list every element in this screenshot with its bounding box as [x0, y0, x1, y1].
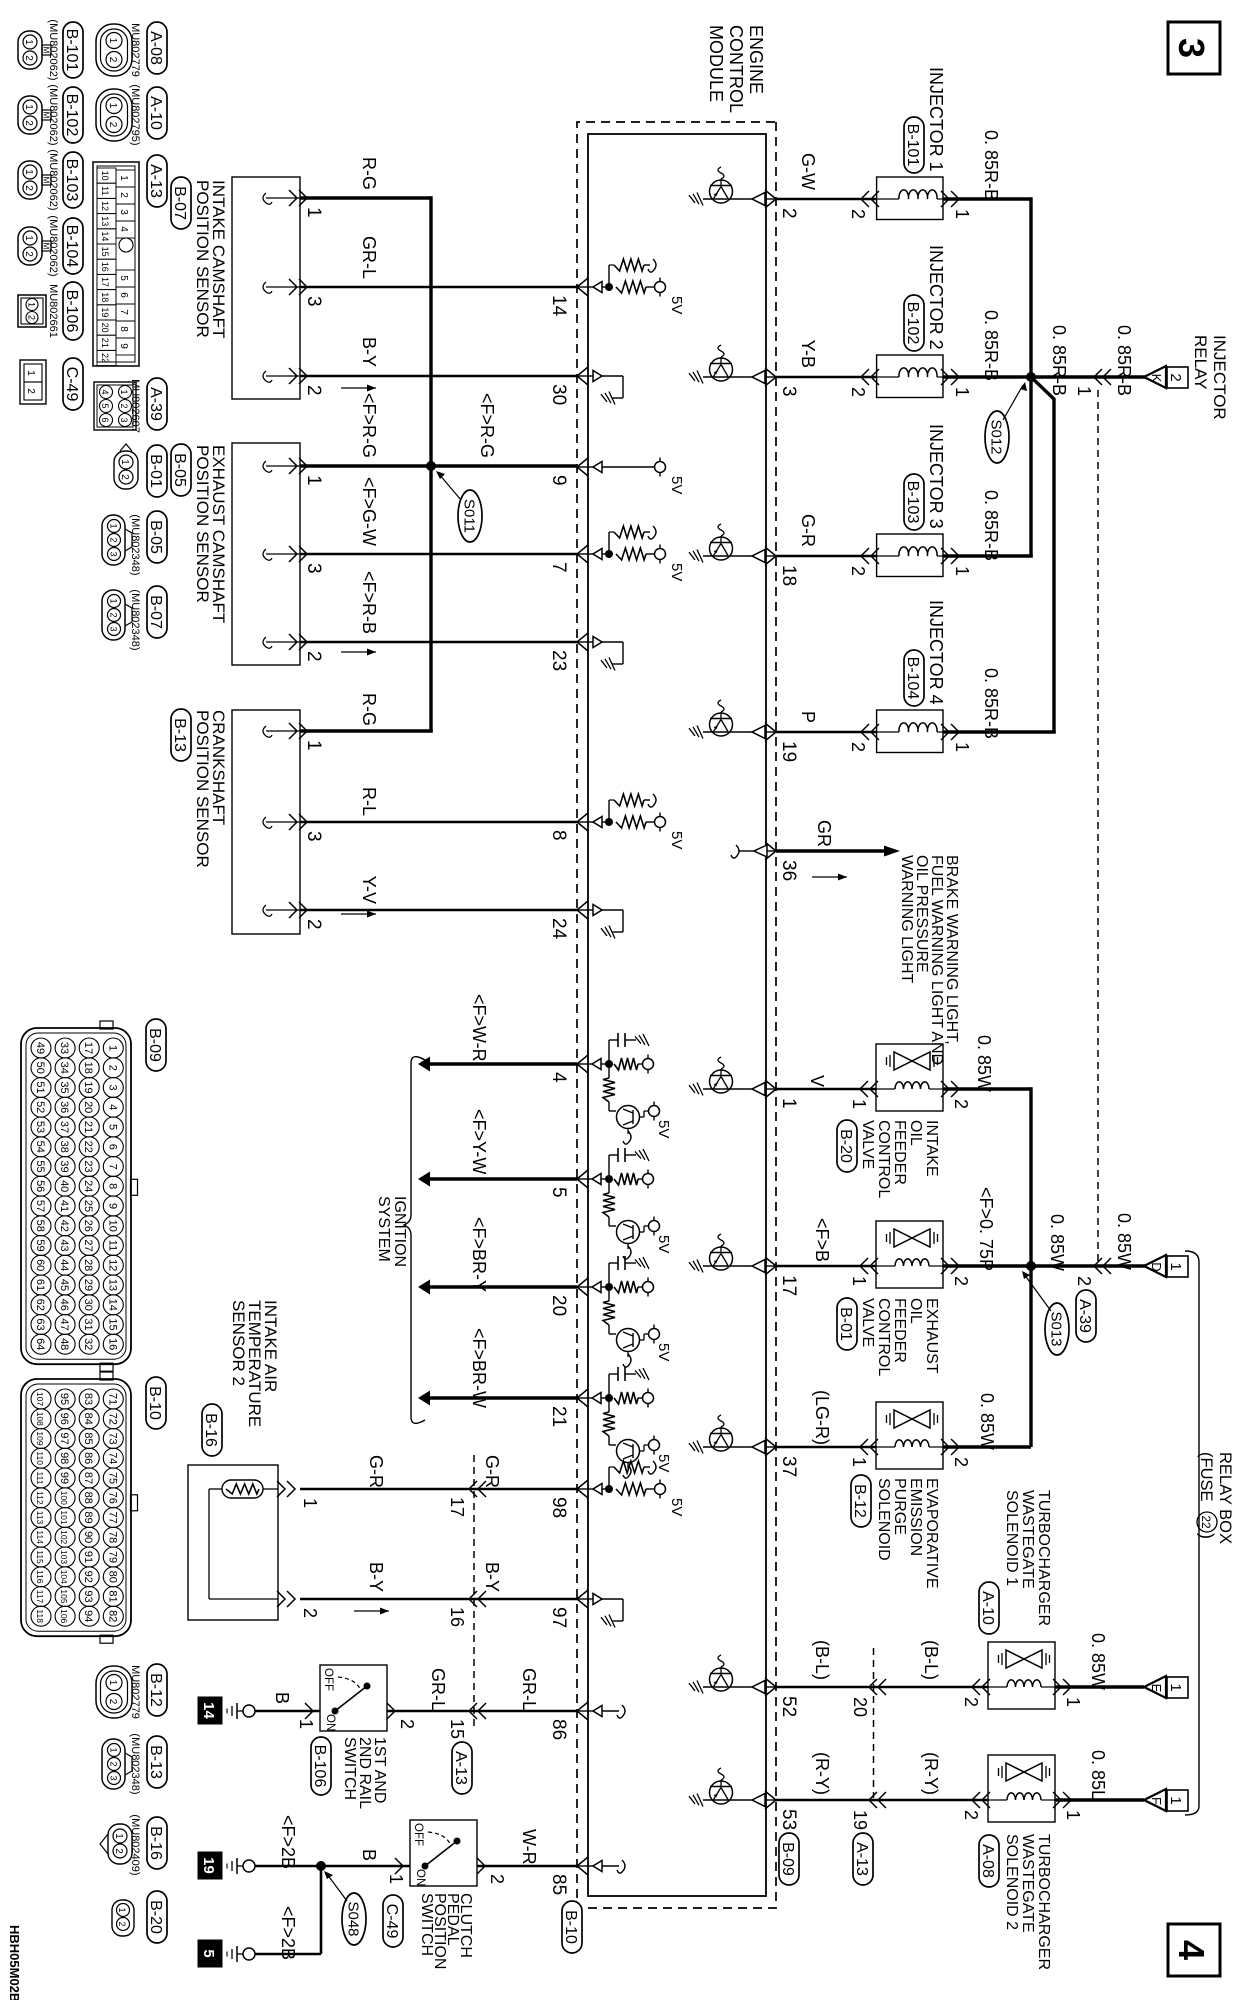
connector text (MU802062) [47, 84, 59, 145]
connector pill B-106 [63, 282, 83, 340]
svg-text:B-01: B-01 [837, 1307, 854, 1341]
svg-text:25: 25 [82, 1200, 94, 1212]
wire 0.85W purge to bus [943, 1445, 1031, 1448]
wire GR-L rail switch to ECM 86 [387, 1710, 577, 1713]
svg-text:OFF: OFF [322, 1668, 334, 1691]
svg-text:R-G: R-G [359, 693, 379, 726]
svg-text:2: 2 [25, 388, 36, 394]
connector text MU802779 [129, 23, 141, 77]
svg-text:S048: S048 [345, 1901, 362, 1936]
svg-text:59: 59 [34, 1239, 46, 1251]
svg-text:1: 1 [109, 1747, 119, 1752]
svg-text:C-49: C-49 [63, 367, 80, 402]
svg-text:3: 3 [109, 626, 119, 631]
clutch switch label [418, 1893, 474, 1969]
svg-text:76: 76 [106, 1492, 118, 1504]
wire label Y-V [359, 876, 379, 904]
svg-text:84: 84 [82, 1413, 94, 1425]
svg-text:63: 63 [34, 1318, 46, 1330]
svg-text:0. 85W: 0. 85W [1114, 1213, 1134, 1270]
injector coil B-101 [877, 190, 943, 199]
svg-text:TURBOCHARGER: TURBOCHARGER [1035, 1834, 1052, 1970]
exhaust camshaft position sensor box B-05 [232, 443, 307, 665]
svg-text:8: 8 [106, 1183, 118, 1189]
connector text (MU802062) [47, 215, 59, 276]
svg-text:<F>R-G: <F>R-G [359, 393, 379, 458]
svg-text:1: 1 [23, 104, 34, 110]
svg-text:61: 61 [34, 1279, 46, 1291]
wire label GR [814, 820, 834, 847]
svg-text:75: 75 [106, 1472, 118, 1484]
svg-text:B-10: B-10 [562, 1910, 579, 1944]
svg-text:73: 73 [106, 1432, 118, 1444]
ECM pin 24 (bottom edge) [548, 901, 588, 940]
A-13 harness dashed line (sensor rows) [473, 1455, 475, 1730]
connector text MU802661 [47, 284, 59, 338]
svg-text:E: E [1149, 1684, 1164, 1693]
svg-text:58: 58 [34, 1220, 46, 1232]
svg-text:TURBOCHARGER: TURBOCHARGER [1035, 1490, 1052, 1626]
svg-text:B-07: B-07 [171, 186, 188, 220]
connector pill B-01 [147, 445, 167, 497]
svg-text:2: 2 [118, 192, 129, 198]
svg-text:1: 1 [27, 302, 37, 307]
svg-text:VALVE: VALVE [859, 1298, 876, 1347]
svg-text:INJECTOR 3: INJECTOR 3 [926, 424, 946, 529]
ECM pin 2 (top edge) [765, 190, 799, 219]
wire labels (B-L) [812, 1640, 941, 1680]
svg-text:37: 37 [778, 1456, 799, 1477]
connector label B-20 pill [837, 1120, 857, 1172]
wire <F>R-G exhaust cam pin1 to ECM pin 9 [300, 464, 577, 467]
svg-text:53: 53 [778, 1809, 799, 1830]
svg-text:0. 85R-B: 0. 85R-B [1114, 325, 1134, 396]
svg-text:2: 2 [117, 1921, 127, 1926]
svg-text:B-01: B-01 [147, 454, 164, 488]
svg-text:22: 22 [1199, 1515, 1213, 1529]
splice junction S013 [1026, 1261, 1036, 1271]
svg-text:112: 112 [35, 1491, 45, 1505]
wastegate1 crossing chevrons [869, 1679, 886, 1695]
wire B-Y intake pin2 to ECM 30 [300, 375, 577, 378]
svg-text:117: 117 [35, 1590, 45, 1604]
connector label B-01 pill [837, 1298, 857, 1350]
svg-text:113: 113 [35, 1511, 45, 1525]
connector label B-09 pill (pin53) [779, 1833, 799, 1885]
wire label <F>B [812, 1218, 832, 1262]
svg-text:B-16: B-16 [147, 1826, 164, 1860]
svg-text:77: 77 [106, 1511, 118, 1523]
svg-text:83: 83 [82, 1393, 94, 1405]
connector pill B-102 [63, 87, 83, 143]
svg-text:A-10: A-10 [979, 1591, 996, 1625]
svg-text:B-106: B-106 [63, 290, 80, 333]
svg-text:1: 1 [1063, 1810, 1083, 1820]
sensor pin number 3 [303, 831, 324, 842]
svg-text:38: 38 [58, 1141, 70, 1153]
svg-text:2: 2 [961, 1810, 981, 1820]
svg-text:0. 85W: 0. 85W [1047, 1214, 1067, 1271]
connector text (MU802062) [47, 19, 59, 80]
ground symbol for spare ground [227, 1946, 255, 1962]
svg-text:19: 19 [200, 1857, 217, 1874]
relay feed triangle D [1144, 1255, 1166, 1277]
svg-text:A-39: A-39 [147, 387, 164, 421]
svg-text:50: 50 [34, 1062, 46, 1074]
connector label B-101 pill [904, 117, 924, 173]
svg-text:A-13: A-13 [147, 164, 164, 198]
svg-text:5V: 5V [655, 1454, 672, 1472]
svg-text:23: 23 [82, 1160, 94, 1172]
svg-text:1: 1 [1167, 1796, 1184, 1804]
ECM pin 36 (top edge) [765, 842, 799, 881]
svg-text:SWITCH: SWITCH [418, 1893, 435, 1956]
intake oil feeder valve label [859, 1120, 940, 1198]
injector/solenoid driver transistor inside ECM at pin 37 [689, 1415, 776, 1454]
wire Y-V crank pin2 to ECM 24 [300, 909, 577, 912]
svg-text:2: 2 [848, 387, 868, 397]
svg-text:16: 16 [100, 262, 110, 272]
svg-text:W-R: W-R [519, 1829, 539, 1865]
svg-text:<F>BR-Y: <F>BR-Y [469, 1217, 489, 1292]
svg-text:52: 52 [34, 1101, 46, 1113]
svg-text:4: 4 [548, 1072, 569, 1083]
svg-text:B-13: B-13 [171, 718, 188, 752]
wire label B [359, 1849, 379, 1861]
svg-text:86: 86 [548, 1719, 569, 1740]
intake camshaft position sensor label [193, 180, 228, 338]
wire label G-R [366, 1455, 386, 1488]
svg-text:B-10: B-10 [146, 1386, 163, 1420]
exhaust oil feeder control valve box B-01 [860, 1221, 959, 1288]
svg-text:POSITION SENSOR: POSITION SENSOR [193, 710, 212, 868]
svg-text:18: 18 [778, 565, 799, 586]
splice label S011 [436, 471, 482, 542]
svg-text:PURGE: PURGE [891, 1478, 908, 1535]
svg-text:3: 3 [118, 209, 129, 215]
svg-text:MU802779: MU802779 [129, 23, 141, 77]
injector/solenoid driver transistor inside ECM at pin 3 [689, 345, 776, 384]
intake air temperature sensor 2 box B-16 [188, 1465, 278, 1620]
injector coil B-103 [877, 547, 943, 556]
svg-text:ON: ON [324, 1714, 336, 1731]
svg-text:(FUSE: (FUSE [1197, 1452, 1215, 1502]
svg-text:97: 97 [58, 1432, 70, 1444]
svg-text:<F>R-B: <F>R-B [359, 571, 379, 634]
wire label <F>BR-Y [469, 1217, 489, 1292]
svg-text:B-12: B-12 [147, 1673, 164, 1707]
svg-text:1: 1 [109, 598, 119, 603]
ECM pin 21 (bottom edge) [548, 1389, 588, 1427]
wire 0.85R-B injector2 to bus / S012 [943, 375, 1031, 378]
svg-text:K: K [1149, 374, 1164, 383]
svg-text:B-103: B-103 [63, 159, 80, 202]
svg-text:2: 2 [113, 1848, 124, 1854]
svg-text:GR-L: GR-L [359, 236, 379, 279]
ECM dashed outline [577, 122, 776, 1908]
svg-text:1: 1 [952, 209, 972, 219]
connector pill B-101 [63, 22, 83, 78]
svg-text:5V: 5V [655, 1120, 672, 1138]
injector pin numbers B-104 [848, 742, 972, 752]
wastegate A-13 dashed link [873, 1648, 875, 1798]
svg-text:B-106: B-106 [311, 1745, 328, 1788]
svg-text:4: 4 [118, 226, 129, 232]
ECM pin 5 (bottom edge) [548, 1170, 588, 1198]
svg-text:ENGINE: ENGINE [746, 25, 766, 94]
svg-text:INJECTOR 2: INJECTOR 2 [926, 245, 946, 350]
svg-text:102: 102 [59, 1530, 69, 1544]
wire R-L crank pin3 to ECM 8 [300, 821, 577, 824]
clutch pedal position switch box C-49 [410, 1820, 477, 1886]
svg-text:105: 105 [59, 1589, 69, 1603]
connector pill A-08 [147, 22, 167, 74]
injector/solenoid driver transistor inside ECM at pin 2 [689, 167, 776, 206]
sensor pin number 1 [303, 740, 324, 751]
svg-text:R-G: R-G [359, 157, 379, 190]
valve pin numbers B-20 [849, 1099, 971, 1109]
splice label S048 [324, 1871, 366, 1945]
svg-text:0. 85W: 0. 85W [974, 1035, 994, 1092]
svg-text:1: 1 [300, 1498, 320, 1508]
injector bus upper [1029, 197, 1032, 554]
svg-text:B-102: B-102 [63, 94, 80, 137]
connector drawing C-49 [20, 360, 46, 404]
svg-text:1: 1 [1074, 386, 1094, 396]
connector drawing B-16 strip [100, 1824, 132, 1864]
ECM internal pull-up network pin 14 [577, 259, 685, 314]
svg-text:R-L: R-L [359, 787, 379, 816]
connector text (MU802062) [47, 149, 59, 210]
svg-text:(B-L): (B-L) [812, 1640, 832, 1680]
svg-text:2: 2 [487, 1874, 507, 1884]
svg-text:14: 14 [106, 1299, 118, 1311]
connector label B-13 pill [171, 709, 191, 761]
connector label B-05 pill [171, 444, 191, 496]
ECM internal 5V source pin 9 [577, 458, 685, 495]
svg-text:B-104: B-104 [904, 657, 921, 700]
svg-text:CONTROL: CONTROL [875, 1120, 892, 1198]
svg-text:39: 39 [58, 1160, 70, 1172]
crossing pin 17 label [447, 1497, 467, 1517]
svg-text:G-W: G-W [798, 153, 818, 190]
svg-text:2: 2 [119, 474, 130, 480]
svg-text:1: 1 [113, 1833, 124, 1839]
connector text MU802779 b12 [129, 1665, 141, 1719]
svg-text:79: 79 [106, 1551, 118, 1563]
injector INJECTOR 4 label [926, 600, 946, 705]
connector drawing B-07 strip [102, 590, 132, 640]
connector face B-09 64pin [21, 1021, 138, 1371]
connector label B-12 pill [851, 1475, 871, 1527]
ECM pin 8 (bottom edge) [548, 813, 588, 841]
connector pill B-12 [147, 1664, 167, 1716]
svg-text:2: 2 [107, 57, 118, 63]
injector/solenoid driver transistor inside ECM at pin 52 [689, 1655, 776, 1694]
exhaust oil feeder valve label [859, 1298, 940, 1376]
wire G-R ECM to injector [776, 555, 877, 558]
svg-text:0. 85R-B: 0. 85R-B [981, 668, 1001, 739]
svg-text:5V: 5V [668, 831, 685, 849]
harness crossing chevrons A-13 [469, 1591, 486, 1607]
svg-text:6: 6 [106, 1144, 118, 1150]
svg-text:3: 3 [303, 296, 324, 307]
svg-text:14: 14 [548, 295, 569, 317]
svg-text:3: 3 [119, 417, 129, 422]
connector label B-07 pill [171, 177, 191, 229]
connector label B-103 pill [904, 474, 924, 530]
relay feed triangle F [1144, 1789, 1166, 1811]
svg-text:(B-L): (B-L) [921, 1640, 941, 1680]
ground reference 14 black box [198, 1697, 222, 1724]
sensor pin number 3 [303, 563, 324, 574]
svg-text:<F>Y-W: <F>Y-W [469, 1109, 489, 1174]
wire label 0.85R-B relay [1049, 325, 1069, 396]
svg-text:1: 1 [849, 1099, 869, 1109]
svg-text:3: 3 [109, 1775, 119, 1780]
svg-text:2: 2 [397, 1719, 417, 1729]
svg-text:2: 2 [109, 1761, 119, 1766]
wastegate1 label [1003, 1490, 1052, 1626]
connector pill B-16 strip [147, 1817, 167, 1869]
ignition wire <F>BR-Y ECM output [418, 1280, 577, 1295]
svg-text:43: 43 [58, 1239, 70, 1251]
relay box ref 2 [1167, 367, 1188, 388]
svg-text:0. 85W: 0. 85W [977, 1393, 997, 1450]
evaporative emission purge solenoid box B-12 [860, 1402, 959, 1469]
ECM pin 52 (top edge) [765, 1678, 799, 1717]
wire P ECM to injector [776, 731, 877, 734]
connector text MU802409 [129, 1814, 141, 1875]
intake oil feeder control valve box B-20 [860, 1044, 959, 1111]
svg-text:22: 22 [82, 1141, 94, 1153]
svg-text:A-39: A-39 [1076, 1299, 1093, 1333]
svg-text:2: 2 [951, 1099, 971, 1109]
connector drawing A-13 22pin [93, 162, 139, 366]
svg-text:SENSOR 2: SENSOR 2 [229, 1300, 248, 1386]
svg-text:5V: 5V [668, 1498, 685, 1516]
svg-text:108: 108 [35, 1412, 45, 1426]
ECM internal stub pin 86 [577, 1705, 625, 1718]
svg-text:B-Y: B-Y [359, 337, 379, 367]
svg-text:(R-Y): (R-Y) [812, 1752, 832, 1795]
wire label <F>BR-W [469, 1328, 489, 1408]
ECM pin 98 (bottom edge) [548, 1480, 588, 1518]
ECM pin 18 (top edge) [765, 547, 799, 586]
injector relay feed wire [1031, 375, 1146, 378]
svg-text:1: 1 [952, 742, 972, 752]
svg-text:47: 47 [58, 1318, 70, 1330]
svg-text:4: 4 [100, 389, 110, 394]
connector label B-106 pill [311, 1737, 331, 1795]
wire (R-Y) ECM53 to wastegate2 [776, 1799, 988, 1802]
connector drawing B-01 [114, 444, 138, 489]
svg-text:86: 86 [82, 1452, 94, 1464]
svg-text:95: 95 [58, 1393, 70, 1405]
sensor pin number 2 [303, 385, 324, 396]
svg-text:B-102: B-102 [904, 302, 921, 345]
crossing pin 1 label [1074, 386, 1094, 396]
valve pin numbers B-01 [849, 1276, 971, 1286]
svg-text:1: 1 [106, 1045, 118, 1051]
svg-text:2: 2 [300, 1608, 320, 1618]
wire 0.85L wastegate2 to relay box [1055, 1798, 1144, 1801]
wire G-R IAT pin1 to ECM 98 [300, 1488, 577, 1491]
svg-text:(MU802062): (MU802062) [47, 149, 59, 210]
svg-text:98: 98 [548, 1497, 569, 1518]
svg-text:12: 12 [100, 201, 110, 211]
svg-text:16: 16 [447, 1607, 467, 1627]
svg-text:B-104: B-104 [63, 225, 80, 268]
svg-text:115: 115 [35, 1550, 45, 1564]
crossing pin 20 label [850, 1697, 870, 1717]
svg-text:21: 21 [548, 1406, 569, 1427]
svg-text:INTAKE: INTAKE [923, 1120, 940, 1177]
svg-text:40: 40 [58, 1180, 70, 1192]
ECM solid box [588, 134, 766, 1896]
relay box ref 1 (D) [1167, 1256, 1188, 1277]
ECM pin 14 (bottom edge) [548, 278, 588, 317]
bus jog S012 to injector4 [1031, 377, 1054, 732]
svg-text:5V: 5V [668, 476, 685, 494]
svg-text:SYSTEM: SYSTEM [375, 1196, 392, 1262]
svg-text:2: 2 [1167, 373, 1184, 381]
splice junction S048 [316, 1861, 326, 1871]
connector text MU802348 b13 [129, 1733, 141, 1794]
svg-text:1: 1 [23, 169, 34, 175]
svg-text:98: 98 [58, 1452, 70, 1464]
svg-text:9: 9 [548, 475, 569, 486]
svg-text:FEEDER: FEEDER [891, 1120, 908, 1185]
svg-text:28: 28 [82, 1259, 94, 1271]
svg-text:B-Y: B-Y [366, 1562, 386, 1592]
svg-text:OIL: OIL [907, 1298, 924, 1324]
svg-text:SWITCH: SWITCH [341, 1737, 358, 1800]
connector pill C-49 [63, 358, 83, 410]
ECM pin 19 (top edge) [765, 723, 799, 762]
svg-text:1: 1 [303, 475, 324, 486]
document code HBH05M02BC [7, 1925, 22, 2000]
svg-text:5V: 5V [668, 296, 685, 314]
ECM internal pull-up network pin 8 [577, 794, 685, 849]
svg-text:2: 2 [23, 55, 34, 61]
svg-text:B-09: B-09 [146, 1028, 163, 1062]
connector label A-39 pill [1076, 1290, 1096, 1342]
svg-text:(LG-R): (LG-R) [812, 1390, 832, 1445]
crossing pin 15 label [447, 1719, 467, 1739]
svg-text:2: 2 [109, 537, 119, 542]
wastegate2 crossing chevrons [869, 1792, 886, 1808]
wire label B [272, 1692, 292, 1704]
svg-text:B: B [359, 1849, 379, 1861]
svg-text:(MU802062): (MU802062) [47, 84, 59, 145]
connector text MU802348 b07 [129, 589, 141, 650]
page grid number 3 (top-left) [1168, 22, 1220, 74]
splice label S012 [985, 382, 1027, 463]
ECM internal ground pin 97 [577, 1594, 623, 1628]
svg-text:15: 15 [447, 1719, 467, 1739]
signal direction arrow B-Y [354, 1608, 389, 1615]
svg-text:94: 94 [82, 1610, 94, 1622]
page grid number 4 (top-right) [1168, 1924, 1220, 1976]
relay box bracket [1185, 1251, 1199, 1815]
wire label W-R [519, 1829, 539, 1865]
svg-text:(MU802348): (MU802348) [129, 514, 141, 575]
wire label G-R [798, 514, 818, 547]
svg-text:2: 2 [778, 208, 799, 219]
svg-text:5: 5 [118, 275, 129, 281]
svg-text:10: 10 [106, 1220, 118, 1232]
